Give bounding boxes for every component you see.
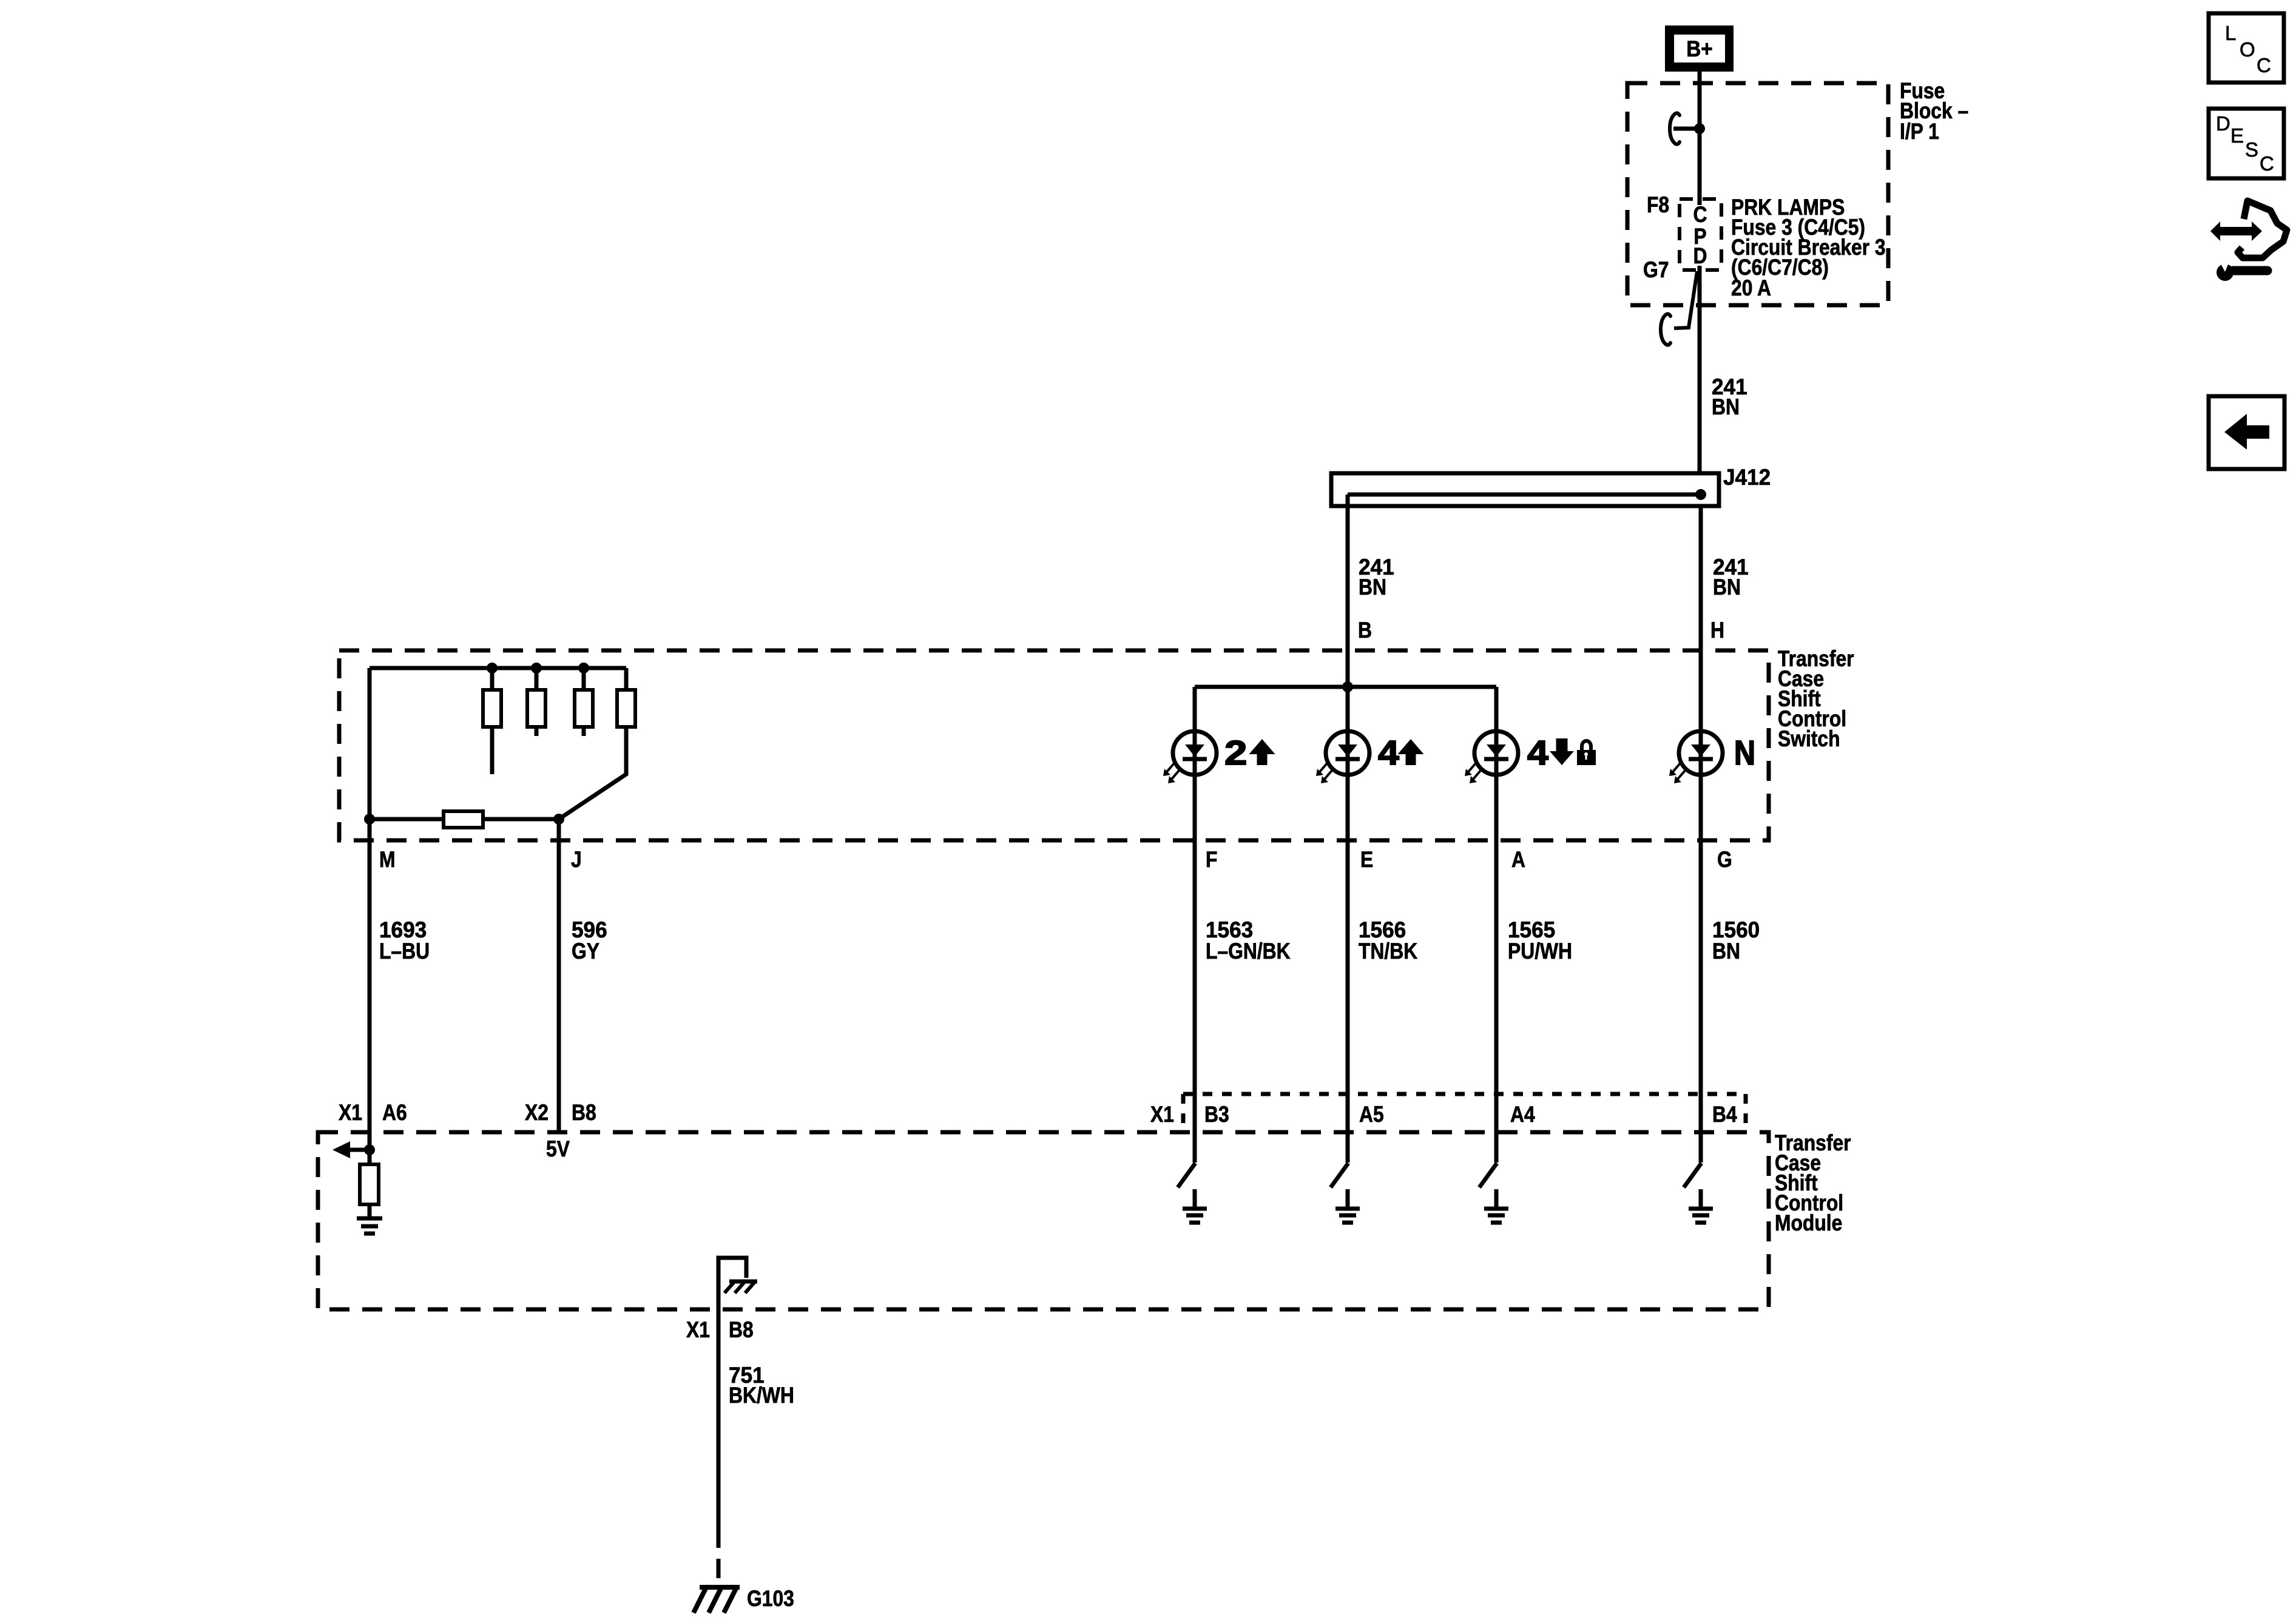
svg-text:BN: BN	[1712, 939, 1740, 964]
svg-text:F8: F8	[1647, 193, 1669, 218]
svg-text:4: 4	[1527, 734, 1548, 772]
svg-text:B8: B8	[729, 1318, 754, 1343]
svg-text:M: M	[379, 848, 396, 873]
svg-text:O: O	[2240, 38, 2255, 61]
svg-text:X1: X1	[339, 1101, 362, 1126]
svg-text:J412: J412	[1723, 464, 1771, 490]
svg-text:B: B	[1358, 618, 1372, 643]
svg-text:BN: BN	[1713, 575, 1741, 600]
svg-text:C: C	[2257, 54, 2271, 76]
svg-text:H: H	[1710, 618, 1724, 643]
svg-text:BK/WH: BK/WH	[729, 1383, 794, 1408]
svg-text:L–BU: L–BU	[379, 939, 430, 964]
svg-text:E: E	[1360, 848, 1373, 873]
svg-text:J: J	[571, 848, 582, 873]
svg-text:X1: X1	[1150, 1102, 1174, 1127]
svg-text:20 A: 20 A	[1731, 276, 1771, 301]
svg-text:BN: BN	[1359, 575, 1386, 600]
svg-text:N: N	[1734, 734, 1755, 772]
svg-text:L–GN/BK: L–GN/BK	[1206, 939, 1291, 964]
svg-text:G103: G103	[747, 1587, 794, 1612]
svg-text:PU/WH: PU/WH	[1508, 939, 1572, 964]
svg-text:C: C	[2260, 152, 2274, 175]
svg-text:BN: BN	[1712, 395, 1740, 420]
svg-text:Switch: Switch	[1778, 727, 1840, 752]
svg-text:A6: A6	[382, 1101, 407, 1126]
svg-text:B+: B+	[1686, 36, 1712, 61]
svg-text:X1: X1	[686, 1318, 710, 1343]
svg-text:TN/BK: TN/BK	[1359, 939, 1417, 964]
svg-text:A: A	[1511, 848, 1525, 873]
svg-text:F: F	[1206, 848, 1217, 873]
svg-text:S: S	[2245, 138, 2258, 161]
svg-text:B4: B4	[1712, 1102, 1737, 1127]
svg-text:I/P 1: I/P 1	[1900, 120, 1939, 144]
svg-text:4: 4	[1378, 734, 1399, 772]
svg-text:2: 2	[1224, 734, 1247, 772]
svg-text:B3: B3	[1204, 1102, 1229, 1127]
svg-text:X2: X2	[525, 1101, 549, 1126]
svg-text:L: L	[2225, 22, 2236, 44]
svg-text:C: C	[1693, 203, 1707, 228]
svg-text:A4: A4	[1510, 1102, 1535, 1127]
svg-text:Module: Module	[1775, 1211, 1842, 1236]
svg-text:G7: G7	[1643, 258, 1669, 283]
svg-text:G: G	[1717, 848, 1732, 873]
svg-text:A5: A5	[1359, 1102, 1384, 1127]
svg-text:D: D	[2216, 112, 2230, 135]
svg-text:B8: B8	[572, 1101, 596, 1126]
svg-text:5V: 5V	[546, 1137, 570, 1162]
svg-text:D: D	[1693, 244, 1707, 269]
svg-text:E: E	[2230, 124, 2244, 147]
svg-text:GY: GY	[572, 939, 599, 964]
